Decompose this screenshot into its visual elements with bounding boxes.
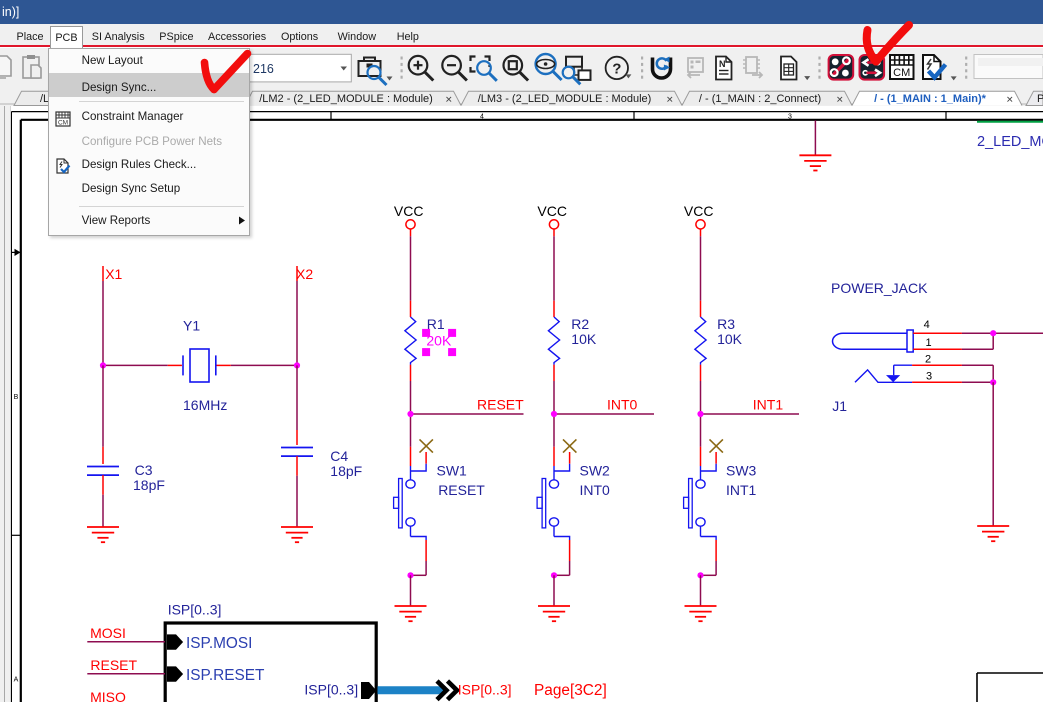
switch SW1 [394,439,433,575]
R2 labels [571,316,597,347]
wire pin4 to node [962,332,993,334]
J1 reference label [832,398,847,414]
SW2 labels [580,462,611,498]
svg-text:RESET: RESET [90,657,137,673]
svg-text:C3: C3 [135,462,153,478]
wire SW3 to ground [700,575,702,606]
R1 selection handles [422,329,456,356]
hierarchical block 2_LED_MODULE top edge [977,121,1043,123]
switch SW2 [537,439,576,575]
svg-text:4: 4 [924,319,930,331]
wire X1 node to C3 [102,365,104,446]
svg-text:INT1: INT1 [753,396,784,412]
annotation red check over toolbar icon [867,30,876,62]
wire SW1 to ground [410,575,412,606]
pin label ISP.MOSI [186,635,252,652]
svg-text:Page[3C2]: Page[3C2] [534,682,607,699]
SW1 labels [437,462,486,498]
resistor R2 [548,301,559,381]
svg-text:INT1: INT1 [726,482,757,498]
bus ISP[0..3] thick wire [378,686,446,694]
svg-text:2: 2 [925,354,931,366]
off-page net label ISP[0..3] [458,682,512,698]
power symbol VCC (column R2) [537,203,567,236]
net INT0 wire [554,413,654,415]
resistor R3 [695,301,706,381]
ground below SW1 [395,606,427,621]
C4 labels [330,448,362,479]
svg-text:SW3: SW3 [726,462,757,478]
wire MOSI [87,641,165,643]
capacitor C3 [87,447,119,495]
svg-text:ISP.RESET: ISP.RESET [186,667,265,684]
C3 labels [133,462,165,493]
svg-text:18pF: 18pF [133,477,165,493]
wire node to right edge [993,332,1043,334]
svg-text:ISP[0..3]: ISP[0..3] [458,682,512,698]
J1 pin 2 lead [912,364,962,366]
pin label ISP.RESET [186,667,265,684]
ground below SW3 [685,606,717,621]
svg-text:R3: R3 [717,316,735,332]
junction X1 node [100,362,106,368]
net label MISO [90,689,126,702]
SW3 labels [726,462,757,498]
bus label ISP[0..3] right [304,682,358,698]
junction node RESET [407,411,413,417]
title block corner [977,673,1043,702]
2_LED_MODULE label [977,134,1043,150]
junction below SW1 [407,572,413,578]
net label INT0 [607,396,638,412]
svg-text:RESET: RESET [477,396,524,412]
svg-text:R2: R2 [571,316,589,332]
svg-text:POWER_JACK: POWER_JACK [831,280,928,296]
svg-text:VCC: VCC [537,203,567,219]
J1 pin numbers [924,319,932,383]
wire C4 to ground [296,476,298,527]
resistor R1 [405,301,416,381]
port X1 [103,266,123,282]
wire C3 to ground [102,495,104,527]
svg-text:X2: X2 [296,266,313,282]
switch SW3 [684,439,723,575]
wire from top frame down [814,120,816,155]
wire X2 down [296,281,298,365]
wire SW2 to ground [553,575,555,606]
svg-text:X1: X1 [105,266,122,282]
svg-text:3: 3 [926,371,932,383]
svg-text:VCC: VCC [394,203,424,219]
wire R3 to INT1 node [700,381,702,447]
junction node INT0 [551,411,557,417]
svg-text:SW2: SW2 [580,462,611,478]
svg-text:2_LED_MODULE: 2_LED_MODULE [977,134,1043,150]
annotation red check over menu [0,0,1043,120]
wire R1 to RESET node [410,381,412,447]
J1 sleeve contact [855,365,912,382]
Y1 value 16MHz [183,397,227,413]
ground below jack [977,526,1009,541]
J1 pin 4 lead [913,332,962,334]
svg-text:Y1: Y1 [183,317,200,333]
wire crystal to X2 [231,364,297,366]
wire pin3 to node [962,381,993,383]
svg-text:CM: CM [58,119,68,126]
svg-text:MISO: MISO [90,689,126,702]
hierarchical block ISP outline [165,623,376,702]
junction below SW2 [551,572,557,578]
power symbol VCC (column R1) [394,203,424,236]
svg-text:10K: 10K [717,331,743,347]
net RESET wire [411,413,524,415]
R3 labels [717,316,743,347]
svg-text:VCC: VCC [684,203,714,219]
Y1 reference label [183,317,200,333]
svg-text:C4: C4 [330,448,348,464]
ground below C3 [87,527,119,542]
svg-text:ISP[0..3]: ISP[0..3] [168,601,222,617]
wire X1 down [102,281,104,365]
junction node INT1 [697,411,703,417]
ground below C4 [281,527,313,542]
capacitor C4 [281,430,313,476]
hierarchical pin ISP bus out [361,682,376,699]
svg-text:ISP[0..3]: ISP[0..3] [304,682,358,698]
bus label ISP[0..3] top [168,601,222,617]
junction GND node [990,379,996,385]
net label RESET [477,396,524,412]
wire RESET [87,673,165,675]
ground below SW2 [538,606,570,621]
wire pin2 down to node [962,365,993,382]
junction X2 node [294,362,300,368]
J1 pin 3 lead [912,381,962,383]
wire VCC to R1 [410,236,412,301]
R1 reference label [427,316,445,332]
power symbol VCC (column R3) [684,203,714,236]
wire pin1 up to node [962,333,993,349]
svg-text:INT0: INT0 [580,482,611,498]
wire jack node to ground [992,382,994,526]
wire VCC to R2 [553,236,555,301]
svg-text:B: B [14,394,19,401]
wire VCC to R3 [700,236,702,301]
bus entry chevrons [437,681,457,700]
wire R2 to INT0 node [553,381,555,447]
net INT1 wire [701,413,800,415]
frame row marker arrow [15,249,21,256]
junction VIN node [990,330,996,336]
off-page reference Page[3C2] [534,682,607,699]
net label RESET (bottom) [90,657,137,673]
svg-text:J1: J1 [832,398,847,414]
svg-text:A: A [14,677,19,684]
svg-text:RESET: RESET [438,482,485,498]
POWER_JACK label [831,280,928,296]
wire X1 to crystal [103,364,168,366]
svg-text:10K: 10K [571,331,597,347]
svg-text:SW1: SW1 [437,462,468,478]
port X2 [296,266,313,282]
net label INT1 [753,396,784,412]
junction below SW3 [697,572,703,578]
R1 value 20K (selected) [426,333,452,349]
net label MOSI [90,625,126,641]
svg-text:INT0: INT0 [607,396,638,412]
hierarchical pin ISP.RESET [167,666,183,681]
svg-text:18pF: 18pF [330,463,362,479]
J1 pin 1 lead [913,348,962,350]
svg-text:1: 1 [925,337,931,349]
svg-text:MOSI: MOSI [90,625,126,641]
svg-text:ISP.MOSI: ISP.MOSI [186,635,252,652]
ground top center [799,155,831,170]
hierarchical pin ISP.MOSI [167,634,183,649]
wire X2 node to C4 [296,365,298,430]
svg-text:16MHz: 16MHz [183,397,227,413]
connector J1 barrel [833,330,914,352]
crystal Y1 [168,349,231,382]
